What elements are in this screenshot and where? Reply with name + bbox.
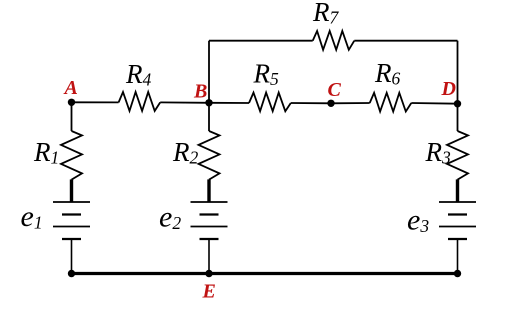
svg-text:e1: e1 <box>21 200 43 233</box>
resistor R5 <box>249 93 291 112</box>
resistor R2 <box>199 131 220 180</box>
battery e2 <box>191 179 228 239</box>
svg-text:R7: R7 <box>312 0 340 28</box>
node D junction dot <box>454 100 461 107</box>
resistor R7 <box>313 31 355 50</box>
node C junction dot <box>327 100 334 107</box>
wire top rail left of R7 <box>209 40 313 42</box>
wire D up to top rail <box>457 41 459 104</box>
svg-text:R1: R1 <box>33 137 59 168</box>
wire R6 to D <box>411 102 457 105</box>
wire e1 to bottom rail <box>71 240 73 274</box>
resistor R4 <box>119 92 161 111</box>
wire A down to R1 <box>71 102 73 131</box>
wire B up to top rail <box>208 41 210 103</box>
battery e1 <box>53 179 90 239</box>
resistor R3 <box>447 131 468 180</box>
wire B down to R2 <box>208 103 210 131</box>
svg-text:R2: R2 <box>172 137 199 168</box>
wire C to R6 <box>331 102 370 104</box>
svg-text:R5: R5 <box>253 59 280 90</box>
wire B to R5 <box>209 102 249 104</box>
battery e3 <box>439 179 476 239</box>
resistor R6 <box>370 93 412 112</box>
wire D down to R3 <box>457 104 459 131</box>
resistor R1 <box>61 131 82 180</box>
bottom-left junction dot <box>68 270 75 277</box>
bottom-right junction dot <box>454 270 461 277</box>
wire e3 to bottom rail <box>457 240 459 274</box>
node A junction dot <box>68 99 75 106</box>
svg-text:A: A <box>63 77 78 99</box>
wire bottom rail E <box>72 272 458 275</box>
wire R5 to C <box>291 102 331 104</box>
svg-text:E: E <box>202 281 216 303</box>
wire top rail right of R7 <box>354 40 457 42</box>
svg-text:B: B <box>193 81 207 103</box>
svg-text:R6: R6 <box>374 58 401 89</box>
wire R4 to B <box>160 101 209 103</box>
node E junction dot <box>205 270 212 277</box>
svg-text:C: C <box>328 79 342 101</box>
wire e2 to bottom rail <box>208 240 210 274</box>
svg-text:e3: e3 <box>407 204 429 237</box>
node B junction dot <box>205 99 212 106</box>
wire A to R4 <box>72 101 119 103</box>
svg-text:R4: R4 <box>125 59 152 90</box>
svg-text:D: D <box>441 78 456 100</box>
svg-text:R3: R3 <box>425 137 452 168</box>
svg-text:e2: e2 <box>159 201 181 234</box>
